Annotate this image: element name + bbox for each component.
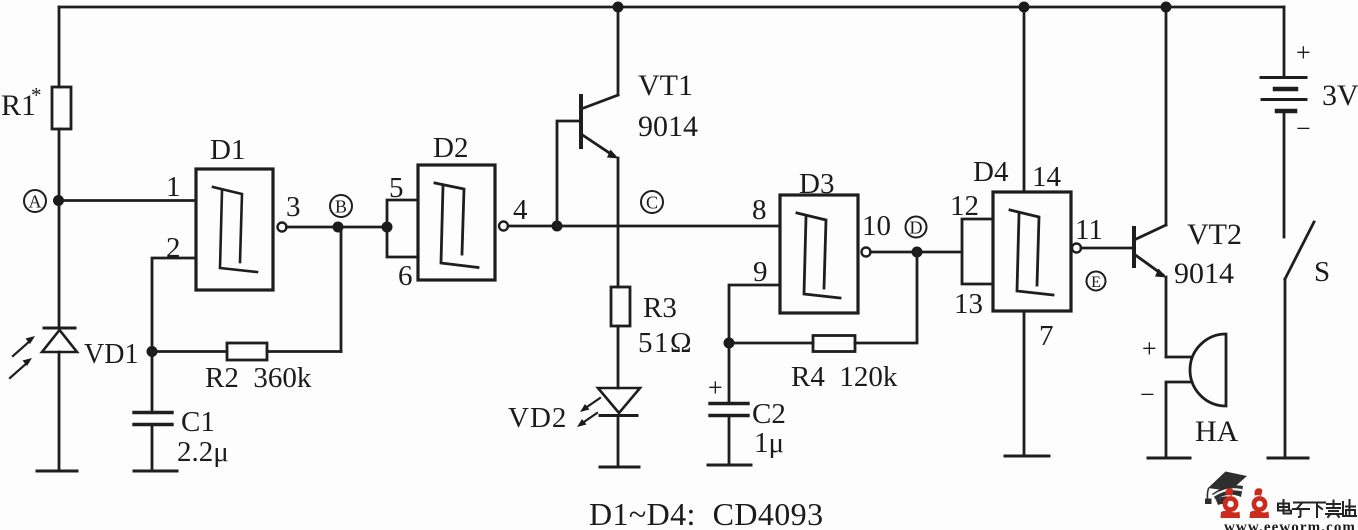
battery 3V [1261, 7, 1306, 237]
capacitor C1 [134, 351, 172, 471]
svg-text:E: E [1091, 274, 1101, 291]
svg-text:VD2: VD2 [508, 402, 567, 434]
gate D2 input bracket pins 5,6 [387, 200, 418, 257]
svg-text:VT1: VT1 [638, 69, 693, 102]
svg-text:VT2: VT2 [1187, 218, 1242, 251]
svg-text:9014: 9014 [638, 110, 698, 143]
wire D3 pin9 stub [729, 285, 780, 343]
wire R1 to node A to VD1 [58, 129, 61, 328]
svg-text:51Ω: 51Ω [638, 327, 693, 359]
node B [330, 195, 352, 233]
svg-text:R3: R3 [643, 292, 677, 324]
wire node A to D1 pin 1 [59, 199, 196, 202]
node C [641, 191, 663, 213]
svg-text:−: − [1140, 380, 1155, 409]
svg-text:3V: 3V [1322, 79, 1358, 112]
node junction R4/C2/pin9 [724, 338, 735, 349]
resistor R3 [611, 287, 630, 388]
D3 output bubble pin 10 [862, 248, 871, 257]
svg-text:R4 120k: R4 120k [791, 361, 898, 393]
svg-text:11: 11 [1075, 214, 1103, 246]
svg-text:13: 13 [954, 288, 983, 320]
svg-text:9014: 9014 [1174, 257, 1234, 290]
wire D4 pin7 to ground [1023, 311, 1026, 456]
svg-text:D: D [910, 218, 923, 238]
svg-text:6: 6 [398, 260, 413, 292]
svg-text:B: B [335, 197, 347, 217]
svg-text:C: C [646, 193, 658, 213]
svg-text:S: S [1314, 256, 1330, 288]
svg-text:+: + [708, 373, 723, 402]
svg-text:12: 12 [950, 190, 979, 222]
LED VD2 [577, 388, 640, 467]
D4 output bubble pin 11 [1072, 244, 1081, 253]
wire node B down to R2 [340, 227, 343, 352]
svg-text:7: 7 [1039, 320, 1054, 352]
svg-text:D1: D1 [210, 134, 245, 166]
node junction pin4/VT1 [552, 221, 563, 232]
gate D2 [418, 165, 495, 280]
resistor R1 [52, 87, 71, 129]
node junction pin14 on rail [1019, 2, 1030, 13]
svg-text:+: + [1142, 334, 1157, 363]
svg-text:*: * [31, 83, 42, 107]
wire D4 pin14 to rail [1023, 7, 1026, 192]
svg-text:2.2μ: 2.2μ [177, 436, 229, 468]
wire top supply rail [59, 6, 1284, 9]
svg-text:D2: D2 [433, 132, 468, 164]
svg-text:2: 2 [166, 232, 181, 264]
ground bar pin7 [1005, 455, 1049, 458]
svg-text:4: 4 [513, 194, 528, 226]
watermark logo graduation cap [1205, 472, 1247, 506]
gate D4 input bracket pins 12,13 [962, 219, 993, 284]
svg-text:HA: HA [1195, 415, 1239, 448]
resistor R2 [152, 343, 341, 360]
ground bar switch [1268, 457, 1308, 460]
gate D4 [993, 192, 1071, 311]
sounder HA [1166, 334, 1226, 458]
svg-text:−: − [1296, 114, 1311, 143]
svg-text:9: 9 [753, 256, 768, 288]
wire D1 pin3 to node B to D2 input [287, 226, 388, 229]
node junction D2 input [382, 222, 393, 233]
wire node D down to R4 [855, 252, 917, 343]
svg-text:C2: C2 [752, 398, 786, 430]
node D [906, 217, 927, 258]
wire D1 pin2 stub [152, 258, 196, 351]
node A [24, 190, 64, 212]
svg-text:5: 5 [389, 172, 404, 204]
node junction C1/R2/pin2 [147, 346, 158, 357]
capacitor C2 [710, 343, 748, 465]
switch S [1285, 222, 1314, 458]
gate D1 [196, 169, 273, 290]
transistor VT1 [557, 7, 619, 287]
svg-text:D1~D4: CD4093: D1~D4: CD4093 [589, 496, 823, 530]
watermark red text [1221, 488, 1270, 518]
svg-text:3: 3 [286, 191, 301, 223]
svg-text:D3: D3 [799, 168, 834, 200]
watermark black site name [1278, 500, 1356, 517]
gate D3 [780, 195, 858, 313]
ground bar C2 [708, 464, 751, 467]
wire D4 pin11 to VT2 base [1081, 247, 1134, 250]
wire D3 pin10 to node D to D4 input [871, 251, 963, 254]
svg-text:R2 360k: R2 360k [205, 362, 312, 394]
ground bar left column [37, 470, 77, 473]
svg-text:14: 14 [1032, 161, 1062, 193]
resistor R4 [729, 336, 855, 352]
svg-text:C1: C1 [181, 406, 215, 438]
svg-text:A: A [29, 192, 42, 212]
ground bar VD2 [600, 466, 639, 469]
svg-text:1: 1 [166, 171, 181, 203]
svg-text:www.eeworm.com: www.eeworm.com [1224, 520, 1356, 530]
node E [1087, 272, 1106, 292]
node junction VT2 collector on rail [1161, 2, 1172, 13]
svg-text:D4: D4 [973, 156, 1009, 188]
ground bar HA [1148, 457, 1190, 460]
wire left column upper [58, 7, 61, 87]
D1 output bubble pin 3 [278, 223, 287, 232]
ground bar C1 [134, 470, 177, 473]
svg-text:+: + [1296, 38, 1311, 67]
node junction VT1 collector on rail [613, 2, 624, 13]
svg-text:VD1: VD1 [84, 339, 138, 370]
photodiode VD1 [10, 328, 77, 471]
transistor VT2 [1134, 7, 1167, 357]
D2 output bubble pin 4 [499, 222, 508, 231]
wire D2 pin4 to VT1 base node [508, 225, 557, 228]
svg-text:8: 8 [752, 194, 767, 226]
svg-text:1μ: 1μ [754, 427, 784, 459]
wire VT1 node to D3 pin 8 [557, 225, 780, 228]
svg-text:10: 10 [862, 210, 891, 242]
